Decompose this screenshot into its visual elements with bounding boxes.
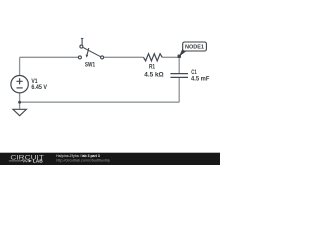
switch arrow head	[86, 55, 89, 58]
voltage source V1	[11, 76, 28, 93]
svg-text:4.5 kΩ: 4.5 kΩ	[144, 71, 164, 78]
svg-text:4.5 mF: 4.5 mF	[191, 75, 210, 82]
footer logo wave line	[9, 160, 29, 162]
svg-text:SW1: SW1	[85, 62, 96, 69]
wire left vertical	[19, 57, 21, 75]
svg-text:http://circuitlab.com/c/6udt9u: http://circuitlab.com/c/6udt9uv6lp	[56, 158, 110, 162]
svg-text:6.45 V: 6.45 V	[31, 84, 47, 91]
wire V1 bottom	[19, 93, 21, 109]
wire resistor to node	[162, 56, 179, 58]
resistor R1	[144, 54, 163, 61]
wire switch to resistor	[104, 56, 144, 58]
node NODE1 flag box	[183, 42, 207, 51]
wire capacitor bottom lead	[178, 78, 180, 102]
node square	[178, 55, 181, 58]
svg-text:LAB: LAB	[33, 159, 43, 164]
wire bottom rail	[20, 101, 180, 103]
svg-text:NODE1: NODE1	[185, 44, 204, 50]
svg-text:R1: R1	[149, 64, 156, 71]
footer bar	[0, 153, 220, 165]
capacitor C1	[170, 74, 188, 78]
switch SW1	[78, 38, 103, 59]
node flag tail	[179, 48, 186, 57]
footer logo arrow	[29, 159, 32, 162]
junction dot	[18, 101, 21, 104]
wire top-left horizontal	[20, 56, 79, 58]
ground	[13, 109, 27, 115]
wire capacitor top lead	[178, 57, 180, 73]
